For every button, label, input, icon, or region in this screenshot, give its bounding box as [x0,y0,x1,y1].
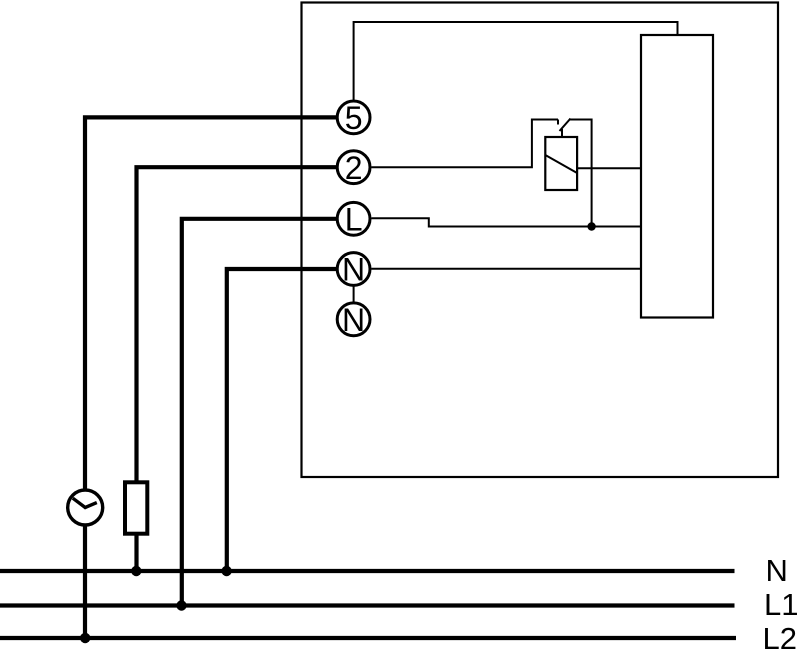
relay K1 box [545,137,577,190]
junction dot L1 [176,600,186,610]
wire terminal2 to switch contact [372,120,559,168]
wire N to module [372,268,642,270]
clock hands [73,498,97,507]
wire lever to down-run [570,120,592,227]
wire N to N2 link [353,286,355,302]
clock timer P1 [68,490,103,525]
relay K1 right lead [577,167,641,169]
wire terminal5 external [85,117,337,489]
wire clock to L2 bus [83,526,87,639]
wire L to module (with step) [372,218,642,226]
svg-text:2: 2 [345,150,363,186]
junction dot N bus right [221,566,231,576]
wire resistor to N bus [134,536,138,572]
wire terminal N external [227,269,337,571]
lever link to relay box [561,129,563,137]
junction dot L2 [80,633,90,643]
bus L1 [0,603,735,607]
internal module K2 (tall rectangle) [641,35,713,318]
switch lever S1 [560,119,571,132]
fixed contact nub [557,120,559,125]
junction dot on L wire [587,222,595,230]
svg-text:L: L [345,202,363,238]
terminal 5 circle [337,101,370,134]
terminal 2 circle [337,151,370,184]
wire terminal L external [182,219,337,606]
junction dot N bus left [131,566,141,576]
bus L2 [0,636,736,640]
svg-text:N: N [766,553,788,588]
terminal N2 circle [337,303,370,336]
wire terminal2 external [137,167,338,481]
resistor R1 [125,482,147,533]
svg-text:N: N [342,302,365,338]
bus N [0,569,735,573]
relay K1 diagonal [545,155,577,173]
svg-text:N: N [342,252,365,288]
terminal N circle [337,253,370,286]
svg-text:5: 5 [345,100,363,136]
wire terminal5 to module top [354,22,678,100]
svg-text:L2: L2 [763,621,797,656]
terminal L circle [337,202,370,235]
device outline box U1 [302,3,779,478]
svg-text:L1: L1 [764,587,798,622]
